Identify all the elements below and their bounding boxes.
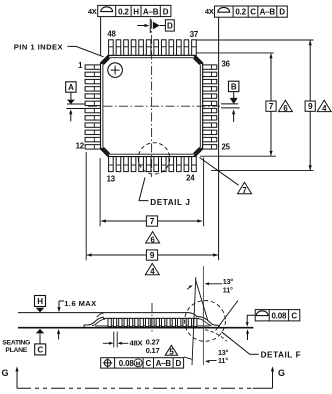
boxed dimension 9 right xyxy=(305,101,315,111)
svg-text:DETAIL J: DETAIL J xyxy=(150,198,190,207)
svg-text:PIN 1 INDEX: PIN 1 INDEX xyxy=(14,42,63,51)
svg-text:0.27: 0.27 xyxy=(146,337,160,346)
note flag 4 bottom xyxy=(145,263,159,274)
side view left gull-wing lead xyxy=(84,317,104,327)
48X lead width dimension xyxy=(103,332,160,356)
pin 1 index leader xyxy=(68,46,104,56)
svg-text:11°: 11° xyxy=(223,285,233,294)
shoulder angle line xyxy=(195,279,207,320)
svg-text:0.08: 0.08 xyxy=(119,359,135,368)
extension line body bottom right xyxy=(200,155,276,157)
svg-text:0.08: 0.08 xyxy=(272,311,288,320)
svg-text:G: G xyxy=(2,368,9,378)
pin 1 index circle xyxy=(108,63,123,78)
detail J circle xyxy=(138,143,169,174)
svg-text:12: 12 xyxy=(76,141,85,150)
svg-text:25: 25 xyxy=(222,142,231,151)
IC pins left column (1..12) xyxy=(85,65,100,69)
package body outline (top view) xyxy=(101,55,203,156)
horizontal centerline xyxy=(88,105,220,107)
svg-text:H: H xyxy=(133,7,139,16)
extension line body top right xyxy=(197,52,274,54)
svg-text:B: B xyxy=(231,82,237,91)
side view package top reference line xyxy=(18,313,197,317)
datum B symbol right side xyxy=(221,81,240,122)
svg-text:7: 7 xyxy=(150,216,155,226)
svg-text:D: D xyxy=(176,359,182,368)
corner chamfer hatch marks xyxy=(100,55,109,64)
side view body bottom edge xyxy=(95,325,210,327)
leader line body left edge to top-left FCF xyxy=(100,17,102,56)
IC pins right column (36..25) xyxy=(203,65,217,69)
svg-text:7: 7 xyxy=(269,101,274,111)
leader line lead tips to top-right FCF / right 9 extension xyxy=(218,17,220,261)
datum A symbol left side xyxy=(66,82,85,122)
svg-text:0.2: 0.2 xyxy=(235,8,246,17)
note flag 7 xyxy=(238,182,252,193)
note flag 6 bottom xyxy=(146,232,160,243)
svg-text:37: 37 xyxy=(190,30,198,39)
svg-text:C: C xyxy=(37,345,43,354)
IC pins top row (48..37) xyxy=(109,40,114,56)
extension line body right bottom xyxy=(203,158,205,227)
svg-text:24: 24 xyxy=(186,174,195,183)
svg-text:D: D xyxy=(279,8,285,17)
vertical centerline xyxy=(151,20,153,178)
lead tip angle line lower near-vertical xyxy=(192,277,196,365)
svg-text:0.2: 0.2 xyxy=(118,7,129,16)
svg-text:A: A xyxy=(68,83,74,92)
svg-text:C: C xyxy=(291,311,297,320)
datum C symbol and SEATING PLANE label xyxy=(2,329,45,355)
DETAIL F leader and label xyxy=(222,332,259,355)
side view body top-left corner curve xyxy=(97,313,104,317)
boxed dimension 7 right xyxy=(266,101,276,111)
seating plane line xyxy=(18,327,253,329)
svg-text:4X: 4X xyxy=(205,7,214,16)
package body inner edge line xyxy=(103,58,200,155)
seating plane flatness FCF profile 0.08 C xyxy=(246,310,300,340)
svg-text:A–B: A–B xyxy=(156,359,172,368)
datum D symbol at top centerline xyxy=(137,19,174,34)
section cut line G-G xyxy=(17,387,253,389)
svg-text:9: 9 xyxy=(150,250,155,260)
detail F circle xyxy=(185,301,226,342)
dimension line 7 bottom xyxy=(101,220,202,222)
extension line lead tips left bottom xyxy=(85,152,87,260)
svg-text:C: C xyxy=(146,359,152,368)
svg-text:9: 9 xyxy=(308,101,313,111)
svg-text:SEATING: SEATING xyxy=(2,340,30,347)
svg-text:A–B: A–B xyxy=(260,8,276,17)
svg-text:4X: 4X xyxy=(88,7,97,16)
svg-text:H: H xyxy=(37,297,43,306)
leader corner to note flag 7 xyxy=(200,158,239,186)
svg-text:G: G xyxy=(278,368,285,378)
upper angle labels 13 11 xyxy=(187,277,233,294)
svg-text:7: 7 xyxy=(242,186,246,195)
side view lead tabs row xyxy=(108,318,111,326)
svg-text:0.17: 0.17 xyxy=(146,346,160,355)
svg-text:48: 48 xyxy=(107,29,116,38)
boxed dimension 7 bottom xyxy=(146,216,157,226)
svg-text:D: D xyxy=(163,7,169,16)
note flag 6 right xyxy=(278,100,292,111)
dimension line 7 vertical xyxy=(270,54,272,156)
IC pins bottom row (13..24) xyxy=(109,157,114,172)
lower angle labels 13 11 xyxy=(205,330,229,365)
top-left feature control frame 4X profile 0.2 H A-B D xyxy=(88,5,171,16)
lead shoulder vertical extension line xyxy=(202,266,204,365)
detail J leader xyxy=(139,178,149,201)
extension line lead tips top right xyxy=(197,39,314,41)
lead position FCF 0.08 M C A-B D xyxy=(101,357,192,368)
side view lead shoulder line xyxy=(103,317,199,319)
svg-text:13: 13 xyxy=(107,175,116,184)
svg-text:C: C xyxy=(250,8,256,17)
svg-text:DETAIL F: DETAIL F xyxy=(261,351,302,360)
extension line body left bottom xyxy=(99,158,101,226)
boxed dimension 9 bottom xyxy=(146,250,157,260)
note flag 4 right xyxy=(317,100,331,111)
svg-text:1.6 MAX: 1.6 MAX xyxy=(64,299,96,308)
svg-text:36: 36 xyxy=(222,59,231,68)
dimension line 9 bottom xyxy=(87,254,218,256)
section G left arrow xyxy=(2,366,19,388)
extension line lead tips bottom right xyxy=(211,170,313,172)
dimension line 9 vertical xyxy=(309,41,311,171)
1.6 MAX height dimension xyxy=(57,299,97,340)
svg-text:D: D xyxy=(167,22,173,31)
section G right arrow xyxy=(271,366,285,388)
side view right gull-wing lead xyxy=(197,316,219,327)
svg-text:11°: 11° xyxy=(218,356,228,365)
note flag 5 xyxy=(165,345,177,355)
svg-text:M: M xyxy=(136,361,141,367)
svg-text:PLANE: PLANE xyxy=(5,347,27,354)
svg-text:48X: 48X xyxy=(130,338,143,347)
svg-text:A–B: A–B xyxy=(143,7,159,16)
datum H symbol xyxy=(35,296,46,313)
lead tip angle line 13 deg upper xyxy=(216,301,239,331)
top-right feature control frame 4X profile 0.2 C A-B D xyxy=(205,6,287,17)
side view vertical centerline xyxy=(151,303,153,332)
